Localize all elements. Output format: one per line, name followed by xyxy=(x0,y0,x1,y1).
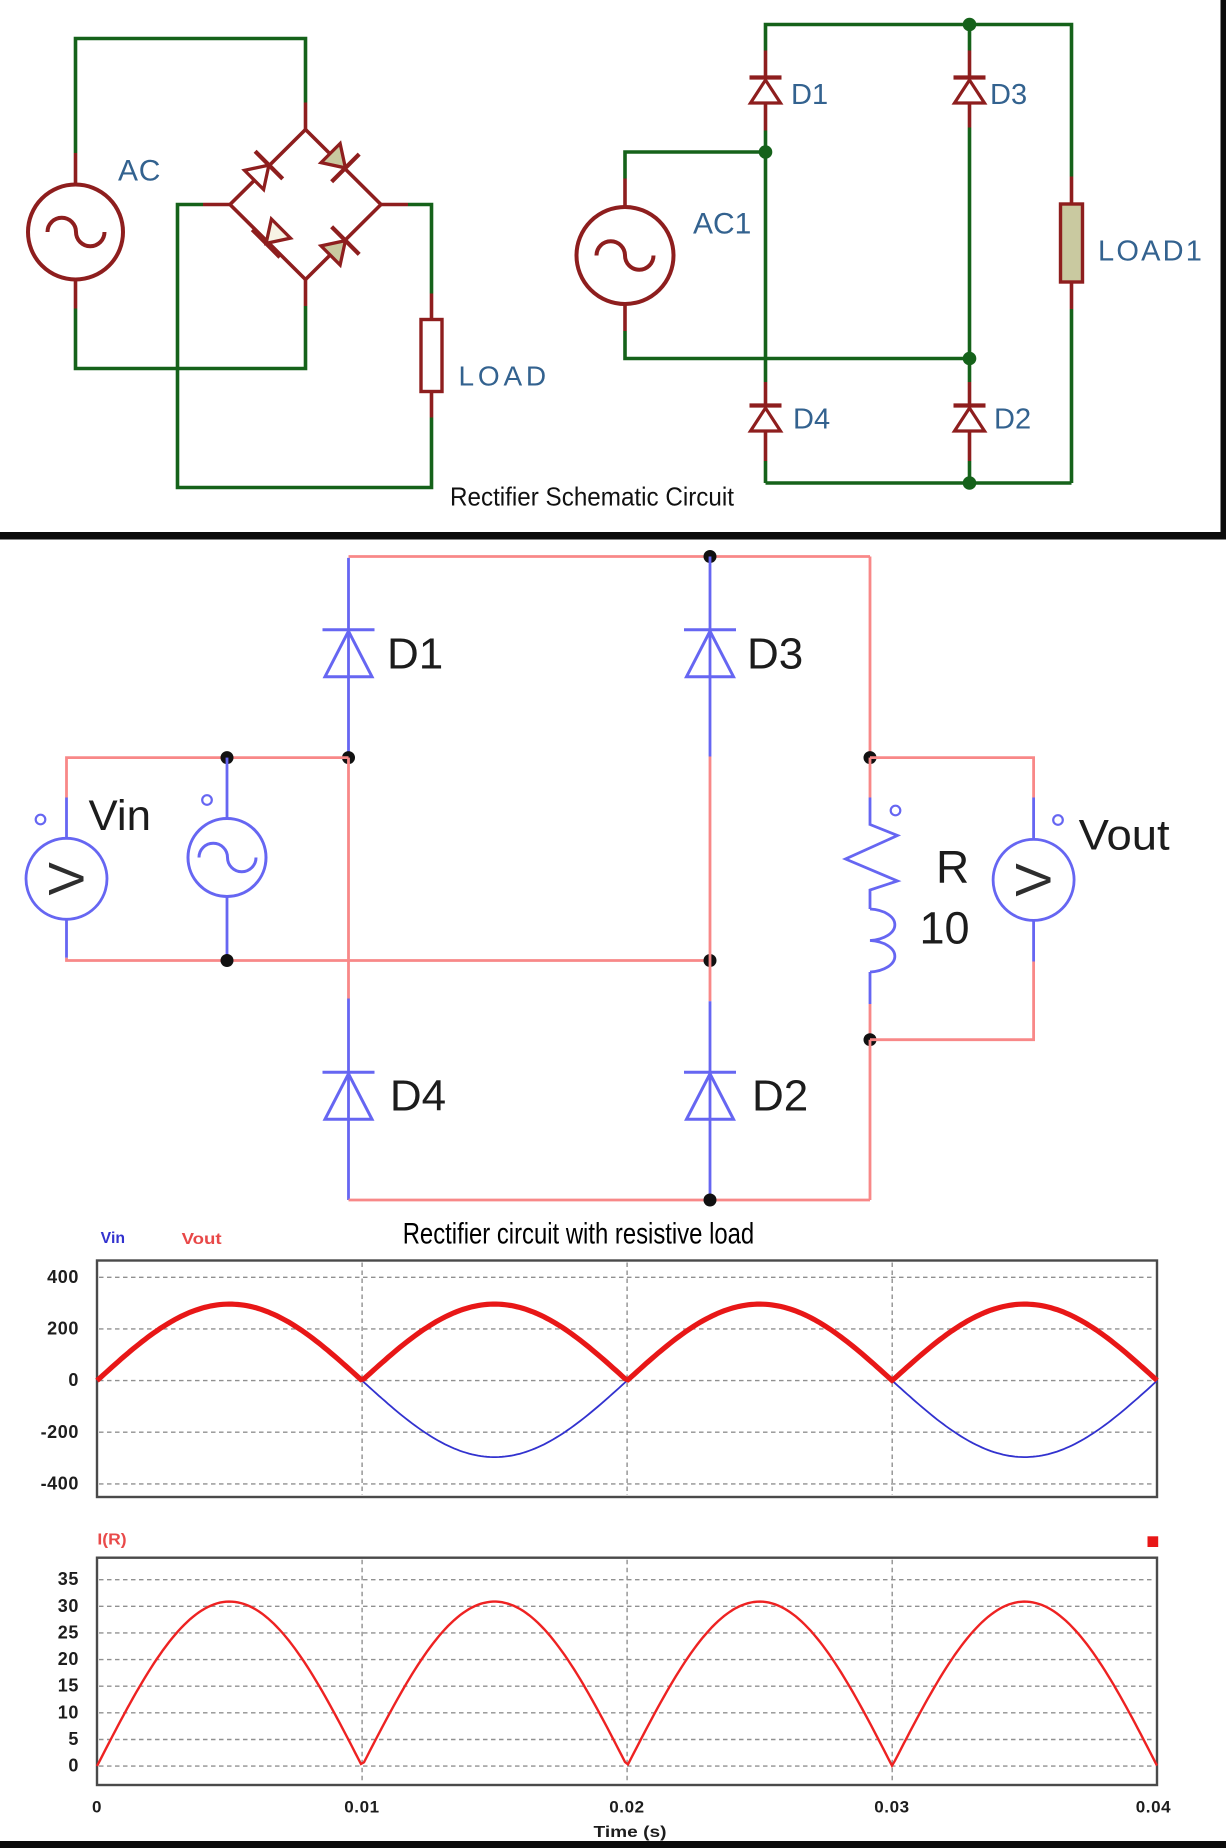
wire: red stub bridge bottom vertex xyxy=(304,280,308,306)
wire: bottom rail (middle circuit) xyxy=(349,1199,871,1202)
wire: red stub bridge top vertex xyxy=(304,103,308,130)
svg-text:AC: AC xyxy=(118,155,161,188)
wire: top rail (right circuit) xyxy=(766,25,1072,177)
svg-text:20: 20 xyxy=(58,1649,79,1669)
wire: AC1 top lead xyxy=(625,152,766,179)
chart 1 horizontal gridlines xyxy=(99,1276,1155,1278)
wire: D4 column blue upper xyxy=(347,999,350,1120)
wire: Vout loop bottom (salmon) xyxy=(870,962,1034,1040)
node: top rail junction xyxy=(963,18,977,32)
wire: D2 to bottom rail (blue) xyxy=(709,1120,712,1200)
svg-text:Vin: Vin xyxy=(89,792,152,840)
chart 1 vertical gridlines xyxy=(361,1263,363,1496)
svg-text:Vout: Vout xyxy=(182,1231,222,1248)
bridge diode bottom-left (left circuit) xyxy=(252,215,294,257)
svg-text:Vin: Vin xyxy=(101,1230,125,1247)
resistor R 10 (zigzag + coils) xyxy=(846,825,898,910)
AC source (middle circuit) xyxy=(188,819,266,897)
wire: R bottom lead (blue then salmon) xyxy=(869,972,872,1004)
wire: D1 cathode down to node (blue) xyxy=(347,677,350,758)
svg-text:5: 5 xyxy=(68,1729,79,1749)
wire: top rail (middle circuit) xyxy=(349,555,871,558)
svg-text:0.01: 0.01 xyxy=(344,1798,380,1817)
wire: right vertex to LOAD top (green) xyxy=(408,205,432,294)
svg-text:25: 25 xyxy=(58,1622,79,1642)
svg-text:I(R): I(R) xyxy=(97,1532,126,1549)
svg-text:0: 0 xyxy=(68,1370,79,1390)
svg-text:15: 15 xyxy=(58,1676,79,1696)
wire: AC1 bottom lead xyxy=(623,303,627,331)
svg-text:D3: D3 xyxy=(747,630,803,679)
svg-text:35: 35 xyxy=(58,1569,79,1589)
svg-text:V: V xyxy=(39,861,95,895)
wire: D4 column salmon segment xyxy=(347,758,350,999)
voltmeter Vout xyxy=(993,839,1074,920)
bridge diode top-right (left circuit) xyxy=(317,139,359,181)
diode D2 (right circuit) xyxy=(968,382,972,406)
svg-text:Rectifier circuit with resisti: Rectifier circuit with resistive load xyxy=(403,1218,755,1251)
wire: red stub LOAD bottom xyxy=(430,392,434,418)
svg-text:400: 400 xyxy=(47,1267,79,1287)
wire: Vout meter bottom lead (blue) xyxy=(1032,920,1035,962)
wire: AC bottom loop to bridge bottom xyxy=(76,306,306,369)
wire: red stub LOAD top xyxy=(430,294,434,320)
svg-text:D2: D2 xyxy=(752,1072,808,1121)
bridge diode bottom-right (left circuit) xyxy=(317,227,359,269)
svg-text:-200: -200 xyxy=(41,1422,79,1442)
svg-text:0.04: 0.04 xyxy=(1136,1798,1172,1817)
wire: bottom rail (right circuit) xyxy=(766,481,1072,485)
wire: left vertex to LOAD bottom (green) xyxy=(178,205,432,488)
svg-text:D4: D4 xyxy=(390,1072,446,1121)
svg-text:0.03: 0.03 xyxy=(874,1798,910,1817)
wire: D3 cathode down (blue then salmon) xyxy=(709,677,712,757)
terminal dot Vin xyxy=(36,815,46,825)
node: AC source top junction xyxy=(221,751,234,764)
chart 2 frame xyxy=(97,1558,1157,1785)
svg-text:-400: -400 xyxy=(41,1473,79,1493)
node: Vin/D1 junction xyxy=(342,751,355,764)
curve I(R) (red rectified) xyxy=(97,1602,1157,1767)
wire: red stub bridge left vertex xyxy=(203,203,230,207)
node: bottom rail junction D4/D2 xyxy=(704,1194,717,1207)
wire: Vin meter top lead (blue) xyxy=(65,798,68,841)
svg-text:LOAD1: LOAD1 xyxy=(1098,236,1204,268)
wire: right column from top rail to R (salmon) xyxy=(869,557,872,758)
node: AC source bottom junction xyxy=(221,954,234,967)
svg-text:Time (s): Time (s) xyxy=(594,1824,667,1841)
diode bridge diamond (left circuit) xyxy=(230,130,381,280)
wire: D3 to D2 (green vertical) xyxy=(968,128,972,383)
diode D3 (right circuit) xyxy=(968,25,972,51)
svg-text:0.02: 0.02 xyxy=(609,1798,645,1817)
node: R bottom junction xyxy=(864,1033,877,1046)
svg-text:D2: D2 xyxy=(994,404,1031,436)
wire: D4 to bottom rail (blue) xyxy=(347,1120,350,1200)
diode D4 (middle circuit) xyxy=(323,1071,375,1074)
diode D3 (middle circuit) xyxy=(684,628,736,631)
node: top rail junction D1/D3 xyxy=(704,550,717,563)
wire: Vout loop top (salmon) xyxy=(870,758,1034,798)
wire: Vin meter bottom lead (blue) xyxy=(65,918,68,958)
wire: R bottom to bottom rail (salmon) xyxy=(869,1040,872,1200)
resistor LOAD xyxy=(421,320,442,392)
wire: Vout meter top lead (blue) xyxy=(1032,798,1035,841)
wire: D1 to D4 (green vertical) xyxy=(764,131,768,383)
chart 2 vertical gridlines xyxy=(361,1560,363,1783)
diode D1 (middle circuit) xyxy=(323,628,375,631)
svg-text:D1: D1 xyxy=(387,630,443,679)
svg-text:D4: D4 xyxy=(793,404,830,436)
svg-text:200: 200 xyxy=(47,1318,79,1338)
resistor LOAD1 xyxy=(1061,204,1083,282)
terminal dot R xyxy=(891,806,901,816)
diode D1 (right circuit) xyxy=(764,51,768,78)
AC1 source xyxy=(577,207,674,304)
diode D2 (middle circuit) xyxy=(684,1071,736,1074)
node: R top junction xyxy=(864,751,877,764)
AC source (left circuit) xyxy=(28,185,123,280)
svg-text:AC1: AC1 xyxy=(693,208,751,241)
svg-text:LOAD: LOAD xyxy=(459,361,550,392)
wire: R top lead (salmon then blue) xyxy=(869,758,872,798)
voltmeter Vin xyxy=(26,838,107,919)
node: bottom rail junction xyxy=(963,476,977,490)
wire: AC source bottom lead (blue) xyxy=(226,897,229,961)
node: D1/D4 junction with AC1 xyxy=(759,145,773,159)
svg-text:V: V xyxy=(1006,863,1062,897)
bridge diode top-left (left circuit) xyxy=(240,151,282,193)
svg-text:R: R xyxy=(936,841,969,893)
terminal dot AC source xyxy=(202,795,212,805)
svg-text:D1: D1 xyxy=(791,79,828,111)
curve Vout (red rectified) xyxy=(97,1304,1157,1381)
svg-text:10: 10 xyxy=(920,903,970,954)
chart 2 red marker square xyxy=(1148,1536,1159,1547)
wire: red stub LOAD1 bottom xyxy=(1070,282,1074,309)
wire: D3 column upper (blue) xyxy=(709,557,712,678)
wire: AC source top lead (blue) xyxy=(226,758,229,820)
svg-text:Vout: Vout xyxy=(1079,811,1170,859)
chart 2 horizontal gridlines xyxy=(99,1579,1155,1581)
svg-text:30: 30 xyxy=(58,1596,79,1616)
wire: red stub AC source top xyxy=(74,153,78,185)
wire: D1 column upper (blue) xyxy=(347,558,350,677)
wire: AC top loop (left circuit) xyxy=(76,39,306,154)
top section right border xyxy=(1221,0,1226,540)
bottom black bar xyxy=(0,1841,1226,1848)
wire: Vin top rail (salmon) xyxy=(67,758,349,798)
svg-text:D3: D3 xyxy=(990,79,1027,111)
wire: LOAD1 to bottom rail xyxy=(1070,309,1074,483)
chart 1 frame xyxy=(97,1261,1157,1498)
diode D4 (right circuit) xyxy=(764,382,768,406)
curve Vin (blue sine) xyxy=(97,1304,1157,1457)
wire: red stub LOAD1 top xyxy=(1070,177,1074,205)
svg-text:0: 0 xyxy=(68,1756,79,1776)
divider bar xyxy=(0,532,1226,540)
svg-text:10: 10 xyxy=(58,1702,79,1722)
svg-text:0: 0 xyxy=(92,1798,102,1817)
node: D3/D2 junction with AC1 return xyxy=(963,352,977,366)
wire: red stub bridge right vertex xyxy=(381,203,408,207)
node: Vin rail / D3-D2 column junction xyxy=(704,954,717,967)
svg-text:Rectifier Schematic Circuit: Rectifier Schematic Circuit xyxy=(450,482,735,512)
wire: Vin bottom rail (salmon) xyxy=(67,958,711,961)
terminal dot Vout xyxy=(1053,815,1063,825)
wire: red stub AC source bottom xyxy=(74,280,78,309)
